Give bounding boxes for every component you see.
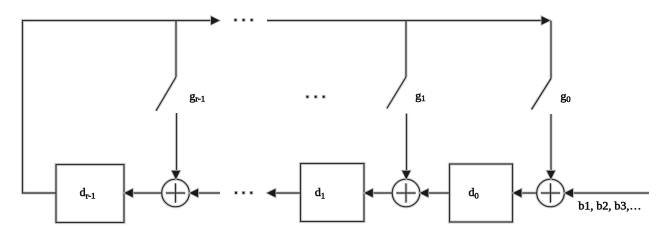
svg-text:g0: g0 bbox=[560, 89, 570, 104]
svg-text:dr-1: dr-1 bbox=[80, 185, 96, 201]
svg-text:d0: d0 bbox=[469, 185, 479, 201]
svg-text:gr-1: gr-1 bbox=[189, 89, 205, 104]
svg-text:g1: g1 bbox=[415, 88, 425, 103]
svg-text:d1: d1 bbox=[315, 185, 325, 201]
svg-text:b1, b2, b3,…: b1, b2, b3,… bbox=[578, 199, 641, 213]
